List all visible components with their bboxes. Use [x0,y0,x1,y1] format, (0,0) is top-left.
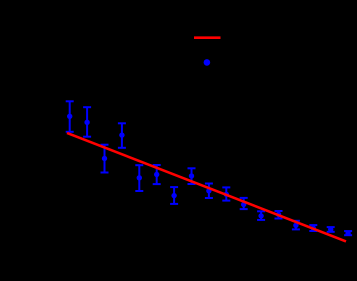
data points with error bars (blue) [66,101,352,236]
point 7 [170,187,178,204]
fit line (red) [67,133,346,242]
point 6 [153,165,161,184]
legend: blue marker sample [204,59,211,66]
point 4 [118,123,126,148]
point 11 [240,198,248,209]
point 8 [188,168,196,184]
point 3 [101,145,109,173]
point 9 [205,184,213,199]
point 16 [327,227,335,232]
point 12 [257,211,265,220]
point 13 [275,211,283,219]
point 5 [135,165,143,191]
point 14 [292,221,300,230]
point 2 [83,107,91,137]
point 17 [344,231,352,236]
point 15 [309,225,317,231]
point 1 [66,101,74,132]
point 10 [222,187,230,200]
legend: red line sample [194,36,221,39]
